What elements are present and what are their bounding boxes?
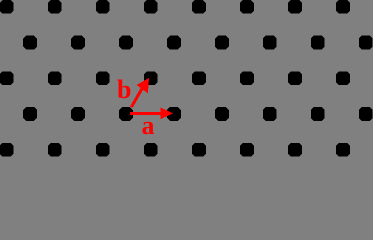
lattice point row5 col7 xyxy=(288,143,302,157)
lattice point row5 col6 xyxy=(240,143,254,157)
lattice vector a: arrow from origin atom to right neighbour xyxy=(130,107,173,119)
svg-text:a: a xyxy=(142,111,155,140)
lattice point row3 col7 xyxy=(288,71,302,85)
2D Bravais lattice diagram: triangular lattice of atoms with primitive vectors a and b xyxy=(0,0,373,157)
lattice point row2 col3 xyxy=(119,36,133,50)
lattice point row2 col1 xyxy=(23,36,37,50)
lattice point row2 col4 xyxy=(167,36,181,50)
lattice point row5 col4 xyxy=(144,143,158,157)
lattice point row1 col2 xyxy=(48,0,62,14)
lattice point row2 col5 xyxy=(215,36,229,50)
lattice point row4 col6 xyxy=(263,107,277,121)
lattice point row4 col8 xyxy=(359,107,373,121)
lattice point row3 col8 xyxy=(336,71,350,85)
lattice point row1 col1 xyxy=(0,0,14,14)
lattice point row5 col2 xyxy=(48,143,62,157)
lattice point row1 col6 xyxy=(240,0,254,14)
lattice point row2 col6 xyxy=(263,36,277,50)
lattice point row3 col5 xyxy=(192,71,206,85)
lattice point row1 col3 xyxy=(96,0,110,14)
lattice point row4 col3 xyxy=(119,107,133,121)
lattice point row5 col5 xyxy=(192,143,206,157)
lattice point row1 col8 xyxy=(336,0,350,14)
lattice point row3 col1 xyxy=(0,71,14,85)
lattice point row3 col6 xyxy=(240,71,254,85)
lattice point row4 col2 xyxy=(71,107,85,121)
lattice point row5 col3 xyxy=(96,143,110,157)
lattice point row2 col8 xyxy=(359,36,373,50)
lattice point row4 col4 xyxy=(167,107,181,121)
lattice point row1 col4 xyxy=(144,0,158,14)
gray background xyxy=(0,0,373,157)
lattice point row3 col2 xyxy=(48,71,62,85)
lattice point row1 col5 xyxy=(192,0,206,14)
lattice point row3 col3 xyxy=(96,71,110,85)
lattice point row4 col5 xyxy=(215,107,229,121)
lattice point row5 col8 xyxy=(336,143,350,157)
svg-text:b: b xyxy=(117,75,131,104)
lattice point row4 col7 xyxy=(311,107,325,121)
lattice point row2 col7 xyxy=(311,36,325,50)
lattice point row5 col1 xyxy=(0,143,14,157)
lattice point row3 col4 xyxy=(144,71,158,85)
lattice point row4 col1 xyxy=(23,107,37,121)
lattice point row1 col7 xyxy=(288,0,302,14)
lattice vector b: arrow from origin atom to upper-right neighbour xyxy=(131,78,149,107)
lattice point row2 col2 xyxy=(71,36,85,50)
